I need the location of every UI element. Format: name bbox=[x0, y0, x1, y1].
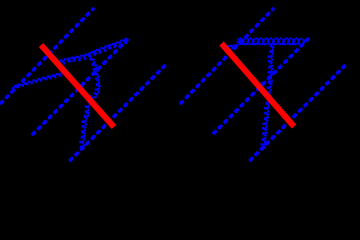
left diagram: gluon coil descending segment bbox=[80, 59, 100, 150]
left diagram: quark line E (dotted blue) bbox=[71, 64, 167, 160]
left diagram: quark line A (dotted blue) bbox=[1, 9, 93, 103]
left diagram: quark line F (dotted blue) bbox=[33, 38, 130, 135]
left diagram: gluon coil upper-right segment bbox=[58, 39, 126, 65]
right diagram: quark line E' (dotted blue) bbox=[251, 64, 347, 160]
right diagram: quark line A' (dotted blue) bbox=[181, 9, 273, 103]
left diagram: red particle track bbox=[41, 45, 114, 127]
right diagram: gluon loop row bbox=[238, 39, 244, 45]
left diagram: gluon coil lower-left segment bbox=[13, 73, 65, 90]
right diagram: quark line F' (dotted blue) bbox=[214, 38, 310, 134]
right diagram: red particle track bbox=[222, 44, 295, 127]
right diagram: gluon stub from red track bbox=[228, 44, 239, 48]
right diagram: gluon coil descending segment bbox=[261, 46, 273, 150]
